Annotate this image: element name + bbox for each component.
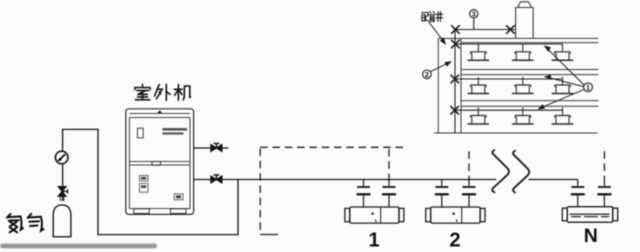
svg-text:1: 1 xyxy=(586,83,590,92)
svg-text:2: 2 xyxy=(425,70,429,79)
svg-text:2: 2 xyxy=(449,230,460,252)
svg-text:N: N xyxy=(584,225,598,247)
svg-text:3: 3 xyxy=(472,10,476,19)
svg-text:1: 1 xyxy=(368,230,379,252)
